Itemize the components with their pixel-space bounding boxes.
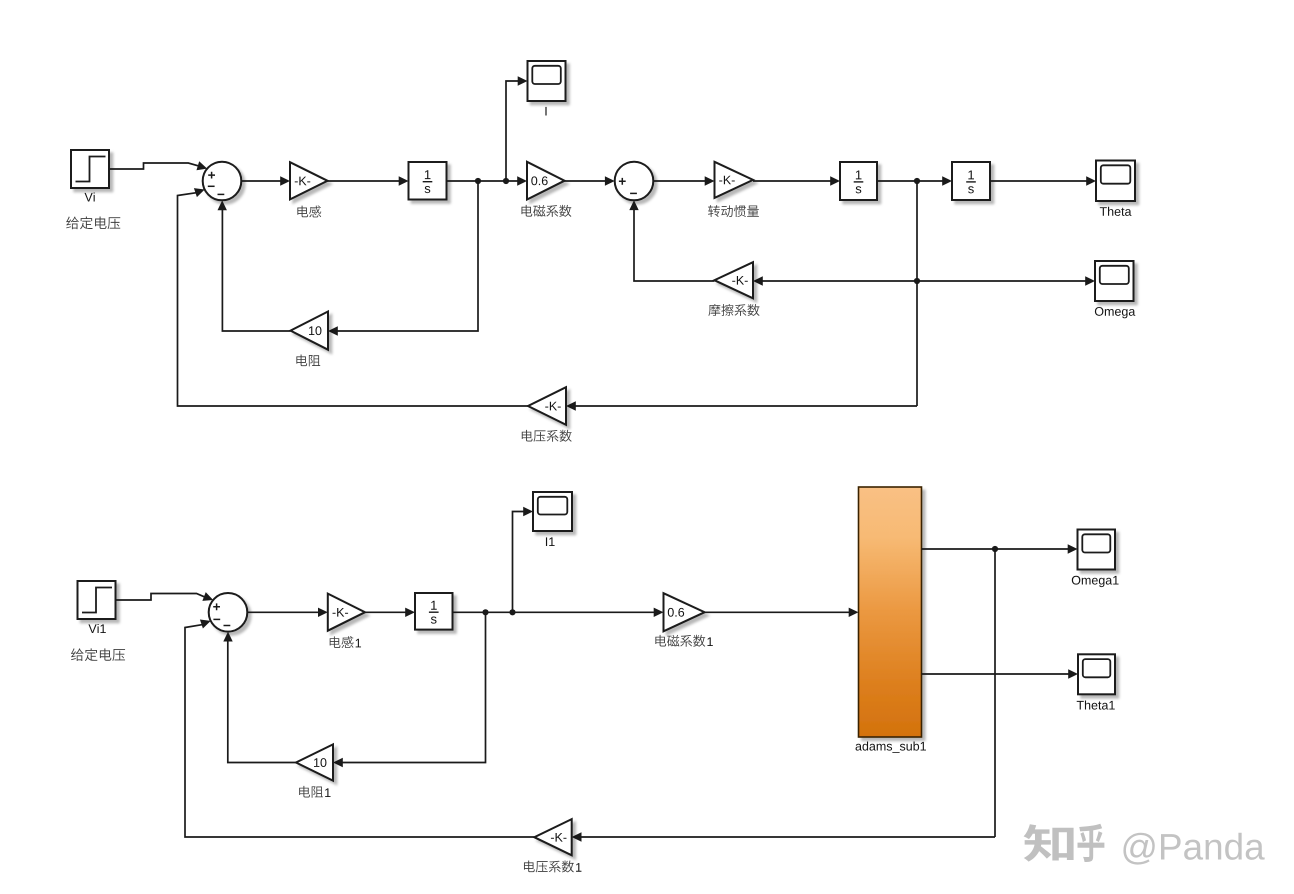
wire Sum1 to gain 电感 <box>241 180 281 182</box>
label I <box>545 107 546 116</box>
integrator block 1/s (top #3) <box>952 162 990 200</box>
wire adams_sub1 out1 to Scope Omega1 <box>922 548 1069 550</box>
gain 电磁系数1 (0.6) <box>664 593 705 631</box>
wire 转动惯量 to integrator2 <box>753 180 831 182</box>
wire Sum2 to gain 转动惯量 <box>653 180 705 182</box>
wire out1 vertical branch down <box>994 549 996 837</box>
gain 电压系数1 (-K-) <box>534 819 571 855</box>
watermark @Panda <box>1123 833 1264 865</box>
label 给定电压 (top) <box>66 217 120 230</box>
label Vi1 <box>88 624 105 633</box>
wire integrator3 to Scope Theta <box>990 180 1087 182</box>
gain 电感 (-K-) <box>290 162 328 199</box>
wire 电磁系数 to Sum2 <box>565 180 607 182</box>
wire Vi1 to Sum3 port1 <box>116 594 206 601</box>
label Theta1 <box>1077 700 1115 709</box>
wire integrator1 to gain 电磁系数 <box>447 180 519 182</box>
scope block I1 <box>533 492 572 531</box>
step source Vi1 <box>78 581 116 619</box>
label 电感1 <box>330 636 354 648</box>
wire branch down to gain 电阻 <box>338 181 479 331</box>
label Omega1 <box>1072 576 1119 587</box>
gain 电阻1 (10) <box>296 744 333 780</box>
label 电阻1 <box>299 786 323 798</box>
watermark 知 <box>1024 824 1074 861</box>
wire omega vertical branch <box>916 181 918 406</box>
wire branch up to Scope I1 <box>513 512 525 613</box>
label 电压系数1 <box>524 860 574 872</box>
wire to Scope Omega <box>917 280 1086 282</box>
wire 电阻 to Sum1 bottom port <box>222 210 290 332</box>
junction node omega branch <box>914 178 920 184</box>
step source Vi <box>71 150 109 188</box>
wire 电压系数1 to Sum3 port2 <box>185 625 534 837</box>
gain 电磁系数 (0.6) <box>527 162 565 200</box>
label 电压系数 <box>522 430 572 442</box>
wire adams_sub1 out2 to Scope Theta1 <box>922 673 1069 675</box>
scope block Theta <box>1096 161 1135 202</box>
subsystem block adams_sub1 <box>859 487 922 737</box>
wire 电感 to integrator1 <box>328 180 400 182</box>
label 给定电压 (bottom) <box>71 648 125 661</box>
gain 摩擦系数 (-K-) <box>714 262 753 298</box>
junction node (branch to 电阻1 loop) <box>482 609 488 615</box>
gain 电感1 (-K-) <box>328 594 365 631</box>
wire branch up to Scope I <box>506 81 519 181</box>
wire 电压系数 to Sum1 port2 <box>178 193 529 406</box>
integrator block 1/s (bottom) <box>415 593 453 630</box>
junction node friction branch <box>914 278 920 284</box>
watermark 乎 <box>1077 824 1104 862</box>
wire 电感1 to integrator4 <box>365 611 406 613</box>
gain 转动惯量 (-K-) <box>715 162 754 198</box>
scope block Omega <box>1095 261 1134 301</box>
junction node (branch to 电阻 loop) <box>475 178 481 184</box>
label adams_sub1 <box>856 741 926 753</box>
wire integrator2 to integrator3 <box>877 180 943 182</box>
wire omega to gain 电压系数 <box>576 405 918 407</box>
sum junction Sum2 <box>615 162 654 201</box>
sum junction Sum3 <box>209 593 248 632</box>
wire 摩擦系数 to Sum2 minus port <box>634 210 714 282</box>
label 电感 <box>297 206 321 218</box>
label 转动惯量 <box>708 205 759 217</box>
wire to gain 摩擦系数 <box>763 280 918 282</box>
junction node (branch to Scope I) <box>503 178 509 184</box>
label 摩擦系数 <box>708 304 759 316</box>
wire branch down to gain 电阻1 <box>343 612 486 762</box>
label Theta <box>1100 207 1132 216</box>
junction node (branch to Scope I1) <box>509 609 515 615</box>
label 电磁系数 <box>521 205 571 217</box>
scope block Theta1 <box>1078 654 1115 694</box>
integrator block 1/s (top #1) <box>409 162 447 200</box>
label Vi <box>84 192 94 201</box>
label 电磁系数1 <box>655 635 705 647</box>
gain 电压系数 (-K-) <box>528 387 566 425</box>
scope block Omega1 <box>1078 530 1116 570</box>
sum junction Sum1 <box>203 162 242 201</box>
wire 电阻1 to Sum3 bottom port <box>228 641 296 763</box>
label Omega <box>1095 307 1135 318</box>
wire Sum3 to gain 电感1 <box>247 611 318 613</box>
integrator block 1/s (top #2) <box>840 162 877 200</box>
gain 电阻 (10) <box>291 312 329 350</box>
wire integrator4 to gain 电磁系数1 <box>453 611 655 613</box>
label I1 <box>546 537 555 546</box>
junction node out1 branch <box>992 546 998 552</box>
wire to gain 电压系数1 <box>581 836 995 838</box>
scope block I <box>528 61 566 101</box>
label 电阻 <box>296 355 320 367</box>
wire Vi to Sum1 port1 <box>109 163 200 169</box>
wire 电磁系数1 to adams_sub1 <box>705 611 849 613</box>
